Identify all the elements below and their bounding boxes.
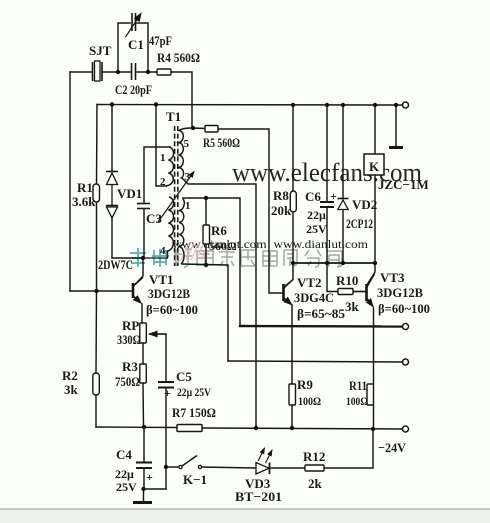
svg-text:100Ω: 100Ω [298, 394, 321, 408]
wire C4 bottom to ground node [144, 469, 166, 489]
wire R6 top [205, 198, 207, 225]
wire R2 upper [95, 291, 98, 373]
junction (193,128) [191, 126, 195, 130]
svg-text:5: 5 [184, 138, 190, 150]
junction (96.5,291) [94, 289, 98, 293]
resistor R2 [93, 373, 100, 395]
capacitor C5 [158, 382, 174, 388]
svg-text:R10: R10 [336, 273, 358, 288]
tap3 arrow [158, 172, 194, 223]
wire C6 bottom to R10 [327, 207, 338, 292]
capacitor C3 [137, 204, 150, 209]
svg-text:20k: 20k [271, 203, 292, 218]
svg-text:3DG12B: 3DG12B [148, 286, 190, 301]
svg-text:K−1: K−1 [183, 472, 207, 487]
wire bottom bus right of R7 [202, 428, 402, 429]
wire winding4 bottom link [143, 257, 168, 259]
terminal line2 [403, 359, 409, 365]
wire crystal right to C2 [102, 71, 130, 73]
zener pair VD1 (2DW7C) [106, 172, 118, 219]
svg-text:3DG12B: 3DG12B [377, 285, 423, 300]
svg-text:1: 1 [185, 200, 191, 212]
junction (373,429) [371, 427, 375, 431]
svg-text:22μ 25V: 22μ 25V [177, 385, 211, 399]
wire R3 to bottom bus [142, 383, 145, 427]
wire VT2 emitter down [291, 305, 293, 384]
potentiometer RP [140, 323, 147, 343]
svg-text:3.6k: 3.6k [72, 194, 96, 209]
wire C4 top [143, 427, 145, 461]
junction (396,105) [394, 103, 398, 107]
wire relay node horizontal [293, 262, 375, 264]
resistor R12 [305, 465, 324, 471]
resistor R1 [93, 184, 100, 202]
svg-text:3: 3 [185, 171, 191, 183]
svg-text:3DG4C: 3DG4C [294, 290, 334, 305]
resistor R7 [177, 425, 202, 432]
wire C3 bottom [143, 209, 145, 258]
capacitor C1 [126, 13, 142, 37]
junction (143,258) [141, 256, 145, 260]
svg-text:β=60~100: β=60~100 [146, 302, 198, 317]
wire VD3 to R12 [270, 467, 305, 469]
svg-text:C6: C6 [305, 189, 321, 204]
diode VD2 [338, 199, 349, 210]
junction (327,105) [325, 103, 329, 107]
wire ground stub [143, 489, 145, 501]
svg-text:750Ω: 750Ω [115, 374, 140, 389]
wire bus to left winding [156, 105, 166, 187]
wire R1 lower to base [96, 202, 98, 291]
ground top right [389, 146, 403, 149]
transformer T1 core [175, 126, 178, 266]
svg-text:R12: R12 [303, 449, 325, 464]
transformer right winding lower (1-4) [179, 199, 184, 265]
junction (375,263) [373, 261, 377, 265]
terminal bus [403, 426, 409, 432]
junction (148,72) [146, 70, 150, 74]
wire R8 bottom [292, 212, 294, 263]
svg-text:VD2: VD2 [352, 197, 377, 212]
wire VD2 bottom [342, 209, 344, 263]
transistor VT2 [284, 280, 293, 305]
svg-text:VT2: VT2 [297, 275, 322, 290]
ground bottom [133, 501, 152, 504]
wire VT1 base [70, 290, 133, 292]
svg-text:VT1: VT1 [149, 272, 174, 287]
resistor R3 [140, 364, 147, 383]
crystal SJT [93, 61, 103, 81]
transistor VT1 [133, 278, 143, 304]
svg-text:2: 2 [160, 176, 166, 188]
svg-text:R4 560Ω: R4 560Ω [157, 50, 200, 65]
transformer left winding lower (4) [168, 197, 174, 258]
svg-text:22μ: 22μ [115, 467, 134, 481]
junction (166,467) [164, 465, 168, 469]
relay K box [364, 154, 384, 175]
svg-text:R7 150Ω: R7 150Ω [172, 405, 216, 420]
wire VT1 emitter to RP [141, 304, 143, 323]
wire R8 top [292, 105, 294, 191]
svg-text:R1: R1 [77, 180, 93, 195]
wire tap3 horizontal [182, 178, 256, 428]
junction (143.5,489) [141, 487, 145, 491]
junction (206,198) [204, 196, 208, 200]
svg-text:β=65~85: β=65~85 [297, 306, 345, 321]
wire winding bottom to line2 [182, 264, 228, 361]
svg-text:R2: R2 [62, 368, 78, 383]
RP wiper arrow [150, 333, 167, 335]
svg-text:JZC−1M: JZC−1M [378, 177, 429, 192]
wire output line1 [240, 325, 402, 328]
wire C6 top [326, 105, 328, 201]
wire C1 branch right riser [137, 23, 148, 72]
svg-text:R5 560Ω: R5 560Ω [203, 135, 240, 150]
svg-text:22μ: 22μ [307, 208, 326, 222]
svg-text:C3: C3 [146, 211, 162, 226]
wire tap1 to line1 [183, 198, 240, 326]
wire R9 bottom [291, 405, 293, 428]
bottom grey band [0, 509, 490, 523]
wire left outer drop [69, 72, 71, 291]
wire bottom bus left of R7 [96, 426, 177, 429]
wire VD1 lower [112, 218, 143, 258]
svg-text:2k: 2k [308, 476, 323, 491]
wire R12 right up to bus [324, 429, 373, 468]
svg-text:100Ω: 100Ω [346, 394, 368, 408]
svg-text:K: K [369, 159, 380, 174]
svg-text:T1: T1 [166, 109, 181, 124]
svg-text:SJT: SJT [89, 43, 112, 58]
svg-text:25V: 25V [306, 222, 327, 236]
pink hatch block [181, 243, 206, 260]
transformer right winding upper (5-3) [179, 128, 193, 179]
svg-text:25V: 25V [116, 480, 137, 494]
svg-text:+: + [330, 189, 337, 203]
svg-text:3k: 3k [345, 299, 360, 314]
junction (206,265) [204, 263, 208, 267]
LED VD3 [256, 448, 272, 474]
svg-text:330Ω: 330Ω [117, 332, 141, 347]
svg-text:2CP12: 2CP12 [346, 216, 373, 231]
resistor R10 [338, 289, 353, 295]
svg-text:R9: R9 [297, 377, 313, 392]
svg-text:C4: C4 [116, 447, 132, 462]
svg-text:R8: R8 [273, 188, 289, 203]
svg-text:−24V: −24V [378, 440, 407, 455]
svg-text:2DW7C: 2DW7C [98, 257, 133, 272]
wire top bus [97, 104, 402, 107]
svg-text:1: 1 [160, 152, 166, 164]
capacitor C6 [320, 202, 334, 207]
resistor R4 [157, 69, 171, 75]
svg-text:47pF: 47pF [149, 33, 172, 48]
watermark chinese company (vector pseudo-glyphs) [130, 248, 342, 267]
wire output line2 [228, 361, 402, 362]
junction (292,428) [290, 426, 294, 430]
svg-text:C5: C5 [176, 369, 192, 384]
wire K top [374, 105, 376, 154]
junction (293,105) [291, 103, 295, 107]
svg-text:R3: R3 [122, 359, 138, 374]
wire C5 down to K-1 node [165, 388, 167, 489]
wire VT2 collector [284, 263, 293, 287]
capacitor C2 [132, 63, 136, 80]
svg-text:+: + [164, 386, 171, 400]
wire VD1 upper [111, 105, 113, 172]
svg-text:VD1: VD1 [117, 186, 142, 201]
wire R2 lower [95, 395, 97, 427]
svg-text:R6: R6 [211, 223, 227, 238]
junction (256,428) [254, 426, 258, 430]
svg-text:VT3: VT3 [380, 270, 405, 285]
svg-text:β=60~100: β=60~100 [378, 301, 430, 316]
wire C2 right to R4 [137, 71, 157, 73]
resistor R9 [289, 384, 296, 405]
wire R4 to corner down [171, 72, 192, 128]
transformer left winding upper (1,2) [166, 147, 174, 186]
svg-text:RP: RP [122, 318, 139, 333]
junction (327,263) [325, 261, 329, 265]
wire ground top right [395, 105, 397, 146]
junction (144,427) [142, 425, 146, 429]
wire C1 branch left riser [118, 23, 130, 72]
svg-text:560Ω: 560Ω [209, 239, 237, 253]
svg-text:C2 20pF: C2 20pF [115, 82, 152, 97]
wire R1 upper [96, 105, 99, 185]
junction (118,72) [116, 70, 120, 74]
switch K-1 [179, 456, 202, 469]
resistor R11 [367, 384, 374, 405]
svg-text:R11: R11 [349, 378, 367, 393]
wire crystal left [70, 71, 92, 73]
svg-text:+: + [146, 470, 153, 484]
wire C3 top link [144, 147, 170, 202]
wire R11 bottom [373, 405, 375, 429]
capacitor C4 [136, 463, 152, 469]
wire K bottom to VT3 collector [368, 175, 376, 284]
svg-text:4: 4 [160, 245, 166, 257]
wire RP to R3 [142, 343, 144, 364]
wire VT1 collector [135, 258, 144, 285]
wire RP wiper to C5 [150, 334, 166, 381]
wire K-1 left [166, 466, 179, 468]
junction (343,263) [341, 261, 345, 265]
svg-text:C1: C1 [128, 37, 144, 52]
junction (112,104.5) [110, 102, 114, 106]
junction (156,104.5) [154, 102, 158, 106]
svg-text:3k: 3k [64, 382, 79, 397]
wire VT3 emitter down [373, 308, 375, 384]
wire R6 bottom [205, 244, 207, 265]
terminal line1 [403, 324, 409, 330]
transistor VT3 [367, 274, 375, 307]
wire R10 to VT3 base [353, 291, 366, 293]
terminal top [403, 102, 409, 108]
wire VD2 top [342, 105, 344, 198]
resistor R8 [290, 191, 296, 212]
junction (293,263) [291, 261, 295, 265]
wire R5 left lead [193, 127, 205, 130]
svg-text:BT−201: BT−201 [235, 489, 282, 504]
wire R5 to VT2 base drop [218, 129, 283, 293]
wire K-1 right to VD3 [201, 467, 256, 468]
resistor R6 [203, 225, 210, 244]
junction (375,105) [373, 103, 377, 107]
teal chars overlay [130, 248, 169, 267]
junction (343,105) [341, 103, 345, 107]
resistor R5 [205, 126, 218, 133]
